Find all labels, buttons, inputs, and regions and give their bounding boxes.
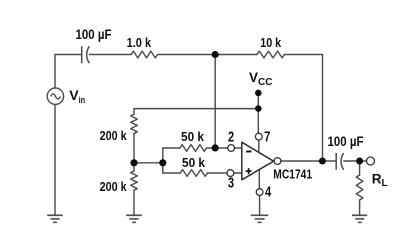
capacitor C1 100uF input — [82, 46, 90, 63]
Vcc terminal dot — [255, 90, 262, 97]
svg-text:100 µF: 100 µF — [76, 27, 112, 42]
wire 200k to ground — [133, 190, 135, 215]
pin 4 circle — [256, 189, 263, 196]
resistor 200 k upper — [131, 114, 138, 133]
resistor R 10 k — [257, 51, 285, 58]
wire op-amp output to output node — [281, 160, 323, 162]
op-amp U1 MC1741 triangle — [242, 142, 274, 180]
junction dot inverting input node — [212, 144, 219, 151]
op-amp minus sign — [246, 151, 251, 153]
node A junction dot — [212, 51, 219, 58]
resistor RL zigzag — [356, 175, 363, 200]
wire load node to output terminal — [360, 160, 367, 162]
pin 2 circle — [228, 145, 235, 152]
junction dot Vcc to divider — [255, 105, 262, 112]
wire bracket to lower 50k — [163, 172, 181, 174]
wire output node to capacitor C2 — [322, 160, 336, 162]
wire Vcc node to top of 200k divider — [134, 109, 258, 115]
svg-text:2: 2 — [228, 129, 234, 145]
capacitor C2 100uF output — [336, 153, 344, 170]
wire op-amp to pin 4 — [258, 169, 260, 189]
op-amp output pin circle — [274, 158, 281, 165]
wire capacitor to 1.0k resistor — [90, 54, 132, 56]
resistor R 1.0 k — [131, 51, 157, 58]
wire 50k upper to pin 2 — [207, 147, 228, 149]
wire pin 3 stub to op-amp — [234, 172, 241, 174]
op-amp plus sign — [246, 168, 252, 174]
ground (below RL) — [352, 215, 367, 222]
wire 200k junction — [133, 133, 135, 171]
wire Vin source to ground — [54, 104, 56, 215]
wire divider node to 50k bracket — [134, 162, 163, 164]
junction dot output node — [319, 158, 326, 165]
wire capacitor C2 to load node — [344, 160, 356, 162]
ground (below lower 200k) — [126, 215, 142, 222]
svg-text:100 µF: 100 µF — [328, 134, 364, 149]
resistor 50 k upper — [180, 145, 207, 152]
resistor 50 k lower — [180, 170, 207, 177]
wire left down to Vin source — [54, 55, 56, 89]
pin 3 circle — [227, 170, 234, 177]
ground (below Vin) — [47, 215, 63, 222]
svg-text:4: 4 — [265, 185, 272, 201]
wire 50k lower to pin 3 — [208, 172, 228, 174]
wire bracket vertical — [162, 148, 164, 173]
svg-text:200 k: 200 k — [100, 128, 128, 143]
resistor 200 k lower — [131, 171, 138, 190]
svg-text:7: 7 — [264, 130, 270, 146]
junction dot load node — [356, 158, 363, 165]
wire 1.0k to node A — [158, 54, 258, 56]
junction dot bracket node — [159, 159, 166, 166]
wire pin 7 stub into op-amp — [258, 140, 260, 153]
pin 7 circle — [255, 133, 262, 140]
wire pin 2 stub to op-amp — [235, 147, 242, 149]
svg-text:1.0 k: 1.0 k — [127, 35, 152, 50]
ground (below pin 4) — [251, 215, 269, 222]
svg-text:10 k: 10 k — [260, 35, 282, 50]
svg-text:50 k: 50 k — [182, 155, 206, 170]
junction dot divider mid node — [130, 159, 137, 166]
wire node A down to inverting input node — [214, 55, 216, 148]
wire load node down to RL — [359, 161, 361, 175]
wire 10k to right corner and down to output node — [285, 55, 323, 162]
svg-text:50 k: 50 k — [181, 129, 205, 144]
wire RL to ground — [359, 200, 361, 215]
svg-text:3: 3 — [228, 176, 234, 192]
wire pin 4 to ground — [259, 196, 261, 216]
wire Vcc terminal down to pin 7 — [257, 93, 259, 133]
wire bracket to upper 50k — [163, 147, 180, 149]
svg-text:MC1741: MC1741 — [273, 166, 312, 181]
source Vin circle — [47, 88, 63, 104]
svg-text:200 k: 200 k — [100, 179, 128, 194]
output terminal open circle — [367, 157, 375, 165]
wire top-left from source corner to capacitor — [55, 54, 81, 56]
